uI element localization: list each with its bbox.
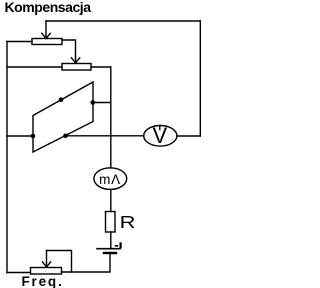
potentiometer P2 wiper arrowhead bbox=[71, 58, 79, 63]
svg-text:Kompensacja: Kompensacja bbox=[5, 0, 92, 15]
wire voltmeter right lead bbox=[177, 135, 200, 137]
wire mA to resistor bbox=[110, 189, 112, 211]
wire P1 left to rail bbox=[7, 41, 32, 43]
wire battery to bottom bbox=[62, 253, 111, 272]
battery positive plate bbox=[97, 248, 120, 250]
wire P3 wiper loop to right terminal bbox=[47, 251, 72, 273]
voltmeter V body bbox=[144, 126, 177, 147]
svg-text:V: V bbox=[152, 123, 167, 148]
wire resistor to battery bbox=[110, 232, 112, 249]
junction dot right side tap bbox=[91, 100, 96, 105]
potentiometer P3 body bbox=[31, 268, 62, 275]
wire bottom tap to voltmeter bbox=[66, 135, 144, 137]
svg-text:R: R bbox=[120, 213, 136, 233]
junction dot top edge tap bbox=[59, 97, 64, 102]
battery negative plate bbox=[104, 252, 116, 254]
wire left rail bbox=[6, 42, 8, 273]
junction dot bottom edge tap bbox=[63, 134, 68, 139]
voltmeter V top tick bbox=[159, 126, 161, 130]
wire rail to P3 left bbox=[7, 272, 31, 274]
wire P1 right to P2 wiper bbox=[62, 40, 76, 59]
milliammeter mA body bbox=[94, 168, 127, 190]
svg-text:Freq.: Freq. bbox=[22, 274, 64, 288]
potentiometer P1 body bbox=[32, 39, 62, 45]
wire P2 left to rail bbox=[7, 66, 62, 68]
slide-wire parallelogram bbox=[33, 82, 93, 152]
wire right rail bbox=[199, 21, 201, 136]
wire parallelogram right tap to mA branch bbox=[93, 102, 111, 104]
potentiometer P3 wiper arrow bbox=[42, 251, 50, 268]
potentiometer P1 wiper arrow bbox=[42, 21, 50, 39]
wire parallelogram left tap to rail bbox=[7, 135, 33, 137]
svg-text:mΛ: mΛ bbox=[99, 172, 121, 187]
wire top horizontal bbox=[46, 20, 200, 22]
resistor R body bbox=[106, 212, 116, 233]
wire P2 right to mA branch bbox=[91, 66, 111, 68]
label battery polarity mark bbox=[115, 242, 122, 248]
potentiometer P2 body bbox=[62, 64, 91, 71]
junction dot left side tap bbox=[31, 134, 36, 139]
wire mA branch vertical upper bbox=[110, 67, 112, 168]
